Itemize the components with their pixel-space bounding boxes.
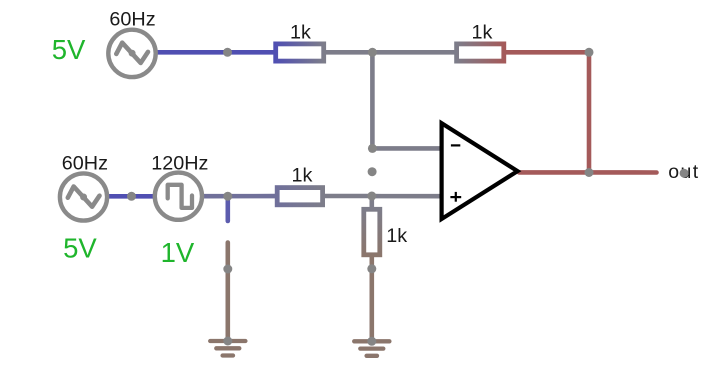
node ground G2 top — [367, 337, 376, 346]
svg-text:120Hz: 120Hz — [151, 152, 208, 174]
wire vertical inverting branch — [370, 52, 375, 148]
wire R3 to plus node — [325, 194, 374, 199]
wire V2 to V3 — [108, 194, 154, 199]
wire V3 to R3 — [203, 194, 277, 199]
wire from R2 to output top corner — [505, 50, 589, 55]
wire from R1 to feedback node — [324, 50, 375, 55]
voltage source V2 60Hz 5V — [60, 173, 107, 220]
node out post — [680, 169, 689, 178]
ground G2 — [354, 341, 389, 356]
svg-text:60Hz: 60Hz — [62, 152, 108, 174]
node on ground wire G1 — [223, 265, 232, 274]
node stray dot — [368, 167, 377, 176]
wire to ground G1 — [226, 243, 231, 341]
node between V2 V3 — [127, 192, 136, 201]
wire from V1 to R1 — [157, 50, 276, 55]
voltage source V3 120Hz 1V — [155, 173, 202, 220]
node ground G1 top — [223, 337, 232, 346]
wire plus node to op-amp — [371, 194, 443, 199]
wire to op-amp inverting input — [372, 146, 443, 151]
svg-text:1k: 1k — [386, 225, 407, 247]
node top right corner — [585, 48, 594, 57]
node below R4 — [367, 264, 376, 273]
wire stub below bottom junction — [226, 196, 231, 221]
node feedback top — [368, 48, 377, 57]
wire from feedback node to R2 — [371, 50, 457, 55]
node bottom stub junction — [223, 192, 232, 201]
svg-text:1V: 1V — [161, 237, 195, 268]
resistor R3 1k — [277, 188, 322, 205]
node plus input — [367, 192, 376, 201]
resistor R4 1k vertical — [364, 209, 380, 255]
svg-text:1k: 1k — [290, 22, 311, 44]
wire op-amp output — [519, 170, 657, 175]
svg-text:1k: 1k — [471, 22, 492, 44]
node inverting input corner — [368, 144, 377, 153]
svg-text:1k: 1k — [292, 165, 313, 187]
node output junction — [585, 168, 594, 177]
resistor R2 1k — [457, 44, 504, 61]
op-amp U1 — [442, 123, 518, 219]
wire vertical feedback right — [587, 52, 592, 172]
svg-text:5V: 5V — [52, 34, 86, 65]
wire R4 to ground G2 — [369, 257, 374, 341]
node junction on top wire — [223, 48, 232, 57]
svg-text:5V: 5V — [63, 232, 97, 263]
voltage source V1 60Hz 5V — [108, 30, 155, 77]
svg-text:60Hz: 60Hz — [109, 9, 155, 31]
wire stub to R4 — [369, 196, 374, 210]
resistor R1 1k — [276, 44, 324, 61]
ground G1 — [210, 341, 245, 356]
